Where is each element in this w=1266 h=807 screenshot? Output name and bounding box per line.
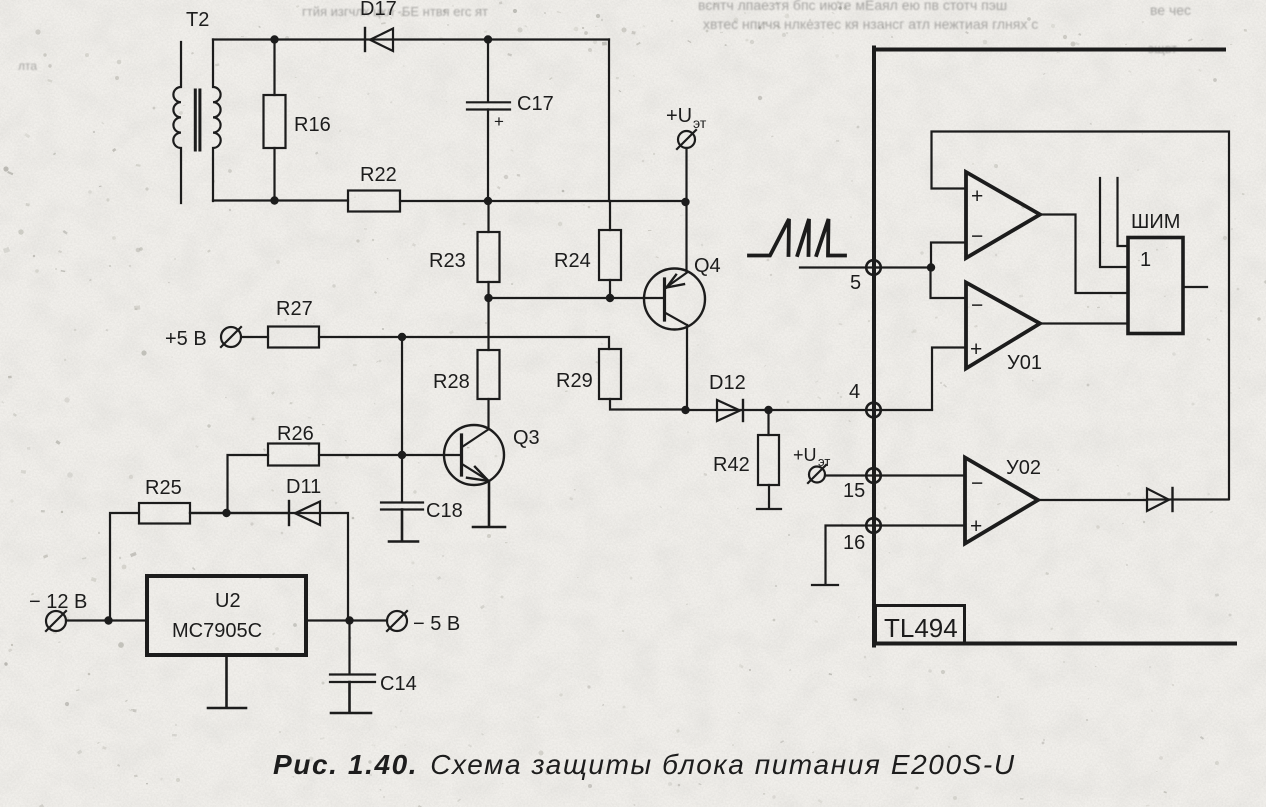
wire right drop x609 — [608, 40, 610, 202]
node pin 16 — [843, 518, 881, 554]
resistor R42 — [713, 410, 781, 509]
terminal +5V — [165, 327, 241, 350]
regulator U2 MC7905C — [147, 576, 306, 655]
node pin 5 — [850, 260, 881, 294]
node pin 15 — [843, 468, 881, 502]
inner thin feedback box — [932, 132, 1230, 500]
svg-text:лта: лта — [18, 59, 37, 73]
wire pin16 to ground — [812, 526, 880, 586]
wire node5 internal — [873, 266, 931, 268]
svg-text:Q3: Q3 — [513, 427, 540, 449]
diode D12 — [709, 372, 746, 421]
resistor R22 — [348, 164, 400, 212]
svg-text:эт: эт — [818, 454, 830, 469]
svg-text:5: 5 — [850, 272, 861, 294]
svg-text:R25: R25 — [145, 477, 182, 499]
TL494 outer box — [874, 48, 1235, 646]
ground U2 — [208, 655, 246, 708]
svg-text:R24: R24 — [554, 250, 591, 272]
wire node5 external — [800, 266, 880, 268]
svg-text:ШИМ: ШИМ — [1131, 211, 1180, 233]
wire top rail — [213, 38, 609, 40]
terminal -5V — [306, 611, 460, 635]
comparator U01 — [931, 268, 1129, 410]
resistor R29 — [556, 349, 686, 410]
node pin 4 — [849, 381, 881, 417]
svg-text:− 5 В: − 5 В — [413, 613, 460, 635]
svg-text:4: 4 — [849, 381, 860, 403]
terminal +Uet 2 — [793, 445, 880, 483]
svg-text:+: + — [494, 112, 504, 131]
svg-text:R27: R27 — [276, 298, 313, 320]
svg-text:вснтч лпаезтя бпс июте мЕаял е: вснтч лпаезтя бпс июте мЕаял ею пв стотч… — [698, 0, 1007, 13]
svg-text:ве чес: ве чес — [1150, 2, 1191, 18]
svg-text:− 12 В: − 12 В — [29, 591, 87, 613]
svg-text:C14: C14 — [380, 673, 417, 695]
terminal -12V — [29, 591, 147, 631]
svg-text:D12: D12 — [709, 372, 746, 394]
sawtooth waveform — [749, 219, 845, 256]
svg-text:−: − — [971, 472, 983, 495]
transistor Q4 — [644, 255, 721, 410]
comparator 1 — [931, 172, 1128, 293]
wire pin16 internal — [873, 524, 965, 526]
svg-text:TL494: TL494 — [884, 613, 958, 643]
svg-text:C18: C18 — [426, 500, 463, 522]
resistor R27 — [241, 298, 609, 349]
svg-text:R16: R16 — [294, 114, 331, 136]
svg-text:−: − — [971, 294, 983, 317]
ghost bleed-through text top — [18, 0, 1191, 73]
resistor R28 — [433, 298, 500, 429]
svg-text:+5 В: +5 В — [165, 328, 207, 350]
resistor R23 — [429, 201, 500, 298]
svg-text:R29: R29 — [556, 370, 593, 392]
svg-text:C17: C17 — [517, 93, 554, 115]
capacitor C17 — [467, 40, 554, 202]
svg-text:Q4: Q4 — [694, 255, 721, 277]
svg-text:+U: +U — [666, 105, 692, 127]
diode output — [1147, 488, 1229, 511]
diode D11 — [190, 476, 348, 620]
PWM box — [1100, 178, 1207, 334]
transformer T2 — [173, 9, 220, 203]
resistor R25 — [110, 477, 289, 620]
svg-text:+U: +U — [793, 445, 817, 465]
wire bottom rail — [213, 199, 686, 202]
svg-text:U2: U2 — [215, 590, 241, 612]
svg-text:+: + — [970, 338, 982, 361]
svg-text:R22: R22 — [360, 164, 397, 186]
svg-text:D11: D11 — [286, 476, 321, 498]
svg-text:У02: У02 — [1006, 457, 1041, 479]
svg-text:У01: У01 — [1007, 352, 1042, 374]
resistor R26 — [228, 337, 403, 513]
svg-text:1: 1 — [1140, 249, 1151, 271]
svg-text:Рис. 1.40.Схема защиты блока п: Рис. 1.40.Схема защиты блока питания E20… — [273, 749, 1016, 780]
transistor Q3 — [402, 425, 540, 527]
svg-text:+: + — [970, 515, 982, 538]
svg-text:16: 16 — [843, 532, 865, 554]
diode D17 — [360, 0, 397, 51]
svg-text:−: − — [971, 225, 983, 248]
svg-text:R28: R28 — [433, 371, 470, 393]
resistor R24 — [554, 201, 621, 298]
terminal +Uet top — [666, 105, 707, 272]
svg-text:+: + — [971, 185, 983, 208]
TL494 label box — [876, 606, 965, 644]
svg-text:R26: R26 — [277, 423, 314, 445]
wire pin15 internal — [873, 474, 965, 476]
svg-text:R23: R23 — [429, 250, 466, 272]
wire node4 — [769, 409, 933, 411]
resistor R16 — [264, 40, 331, 201]
capacitor C18 — [381, 455, 463, 542]
svg-text:эт: эт — [693, 115, 707, 131]
svg-text:15: 15 — [843, 480, 865, 502]
svg-text:R42: R42 — [713, 454, 750, 476]
capacitor C14 — [330, 621, 417, 714]
svg-text:T2: T2 — [186, 9, 209, 31]
svg-text:MC7905C: MC7905C — [172, 620, 262, 642]
svg-text:D17: D17 — [360, 0, 397, 20]
svg-text:хвтес нпичя нлкезтес кя нзансг: хвтес нпичя нлкезтес кя нзансг атл нежти… — [703, 16, 1038, 32]
wire Q4 base — [489, 297, 663, 299]
comparator U02 — [965, 457, 1147, 544]
